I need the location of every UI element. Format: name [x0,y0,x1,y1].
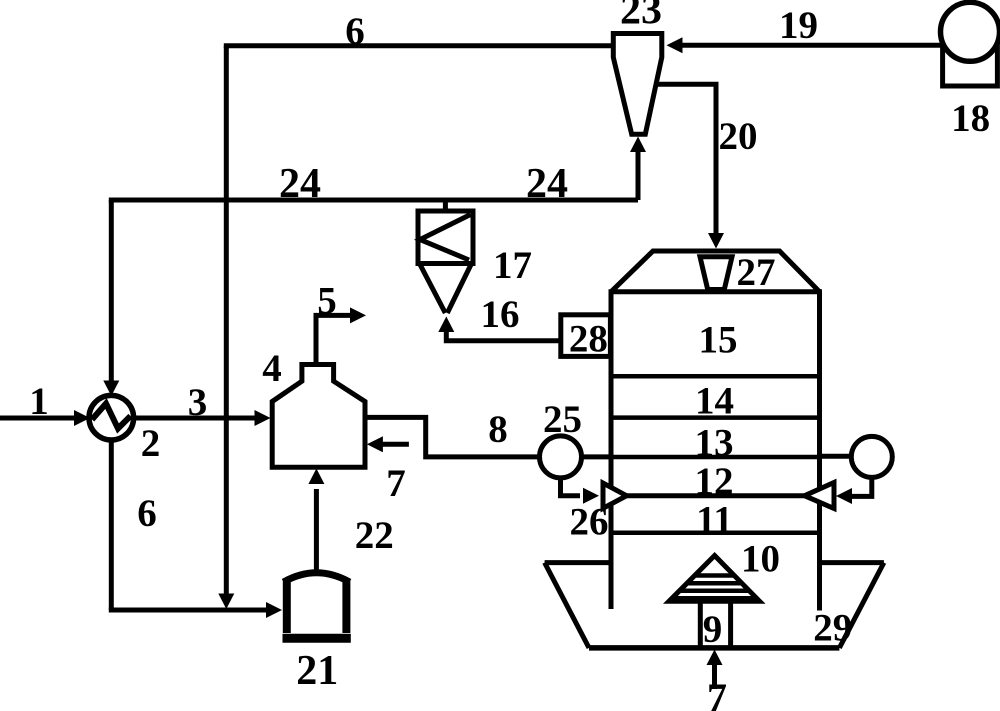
wire stream 1 into heat exchanger [0,416,78,421]
filter 17 internal triangle [420,215,471,261]
wire 20 cyclone to scrubber top [654,84,716,234]
filter 17 funnel [420,264,472,314]
wire 19 from fan to cyclone [680,43,943,48]
tray divider below 15 [611,374,820,379]
spray cone 10 [669,556,760,602]
cone stripe 1 [695,573,735,578]
basin top left edge [545,560,611,565]
svg-text:5: 5 [317,280,337,323]
svg-text:27: 27 [737,251,776,294]
wire wall to right pump [820,454,852,459]
cyclone 23 [613,34,662,135]
fan 18 base [943,26,998,86]
wire pump 25 to wall [582,454,612,459]
svg-text:6: 6 [137,492,157,535]
tank 21 bottom [283,634,351,643]
scrubber left wall [609,292,614,609]
arrow down at tank line [218,594,234,610]
gas pipe 9 left wall [698,601,703,648]
heat exchanger E2 circle [89,395,134,440]
svg-text:3: 3 [188,381,208,424]
tank 21 left wall [283,579,291,633]
scrubber shoulder line [609,289,823,294]
wire 24 horizontal [109,198,638,203]
fan 18 circle [941,2,1000,61]
spray header wire across column [627,493,805,498]
arrow into right nozzle [836,488,852,504]
wire 6 from heat exchanger bottom down [109,439,114,610]
svg-text:21: 21 [296,648,338,694]
arrow into heat exchanger top [103,381,119,397]
wire 8 from vessel 4 to pump 25 [365,417,540,457]
svg-text:7: 7 [707,675,727,711]
wire 16 from box 28 to filter [446,330,561,341]
svg-text:26: 26 [570,501,609,544]
right spray nozzle [805,483,835,509]
svg-text:14: 14 [695,380,734,423]
svg-text:16: 16 [481,293,520,336]
arrow stream 19 into cyclone [667,37,683,53]
svg-text:15: 15 [699,319,738,362]
arrow stream 1 [74,410,90,426]
tank 21 dome [284,573,350,582]
right pump circle [851,436,892,477]
svg-text:19: 19 [779,4,818,47]
svg-text:1: 1 [29,380,49,423]
svg-text:10: 10 [741,538,780,581]
svg-text:28: 28 [569,318,608,361]
wire stream 7 into scrubber bottom [712,663,717,689]
pump 25 outlet wire [561,478,581,496]
svg-text:29: 29 [813,607,852,650]
arrow stream 7 up [707,650,723,666]
tray divider at pump level [611,455,820,460]
wire 22 tank 21 to vessel 4 [314,489,319,572]
arrow stream 3 [255,410,271,426]
arrow up into filter 17 bottom [438,317,454,333]
wire up to cyclone bottom [636,151,641,200]
pump 25 circle [540,436,582,478]
right pump outlet wire [850,477,872,497]
basin right slant [839,563,884,648]
svg-text:25: 25 [543,398,582,441]
left spray nozzle 26 [603,483,627,508]
svg-text:24: 24 [279,161,321,207]
arrow into tank 21 [266,602,282,618]
svg-text:9: 9 [703,608,723,651]
wire vertical recycle x=226 [224,46,229,596]
gas pipe 9 right wall [728,601,733,648]
basin left slant [545,563,589,648]
svg-text:23: 23 [620,0,662,34]
svg-text:8: 8 [488,408,508,451]
svg-text:2: 2 [141,422,161,465]
arrow stream 22 up into vessel 4 [308,469,324,485]
vessel 4 body [272,365,365,468]
heat exchanger E2 zigzag [92,404,131,429]
pipe stream 5 out of vessel 4 [316,315,352,364]
filter 17 body [418,211,473,264]
svg-text:11: 11 [696,499,733,542]
svg-text:6: 6 [345,10,365,53]
arrow stream 20 down into inlet 27 [708,233,724,249]
svg-text:4: 4 [262,347,282,390]
svg-text:24: 24 [526,161,568,207]
svg-text:20: 20 [719,115,758,158]
arrow into left nozzle [583,488,599,504]
stub from wire 24 into filter 17 [443,200,448,212]
cone stripe 3 [679,589,749,594]
arrow stream 5 [350,307,366,323]
scrubber cap [611,251,820,292]
svg-text:17: 17 [493,244,532,287]
scrubber inlet funnel 27 [700,257,732,290]
basin top right edge [820,560,884,565]
wire 6 top horizontal to cyclone [224,43,613,48]
box 28 [561,315,611,357]
wire 24 down into heat exchanger top [109,200,114,383]
svg-text:7: 7 [386,462,406,505]
tank 21 right wall [342,579,350,633]
svg-text:18: 18 [951,97,990,140]
basin bottom [589,645,839,651]
tray divider below 11 [611,531,820,536]
wire stream 7 stub into vessel 4 [381,442,409,447]
wire bottom horizontal to tank 21 [109,608,268,613]
cone stripe 4 [672,596,757,601]
cone stripe 2 [687,581,742,586]
wire stream 3 heat exchanger to vessel 4 [134,416,257,421]
scrubber right wall [817,292,822,611]
tray divider below 14 [611,415,820,420]
arrow stream 7 into vessel [367,436,383,452]
arrow up into cyclone 23 [630,137,646,153]
svg-text:22: 22 [355,514,394,557]
